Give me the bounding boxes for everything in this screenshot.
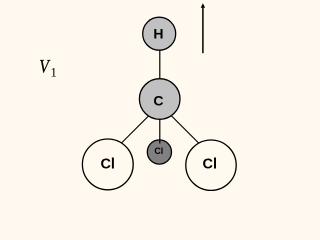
wire bond H to C bbox=[159, 33, 161, 99]
wire bond C to small Cl bbox=[159, 110, 161, 144]
node Cl left (large open circle) bbox=[82, 139, 133, 190]
node Cl right (large open circle) bbox=[186, 140, 236, 190]
svg-text:1: 1 bbox=[50, 65, 57, 80]
svg-text:H: H bbox=[153, 26, 163, 42]
node Cl small (dark gray circle) bbox=[147, 140, 171, 164]
wire bond C to right Cl (45 deg) bbox=[167, 111, 207, 151]
svg-text:Cl: Cl bbox=[154, 146, 163, 156]
svg-text:Cl: Cl bbox=[203, 157, 218, 173]
node H atom (gray circle) bbox=[143, 17, 176, 50]
svg-text:C: C bbox=[153, 92, 163, 108]
svg-text:Cl: Cl bbox=[100, 157, 115, 173]
arrow (vertical, pointing up) bbox=[202, 6, 204, 53]
node C atom (gray circle) bbox=[139, 79, 180, 120]
wire bond C to left Cl (45 deg) bbox=[113, 113, 152, 152]
